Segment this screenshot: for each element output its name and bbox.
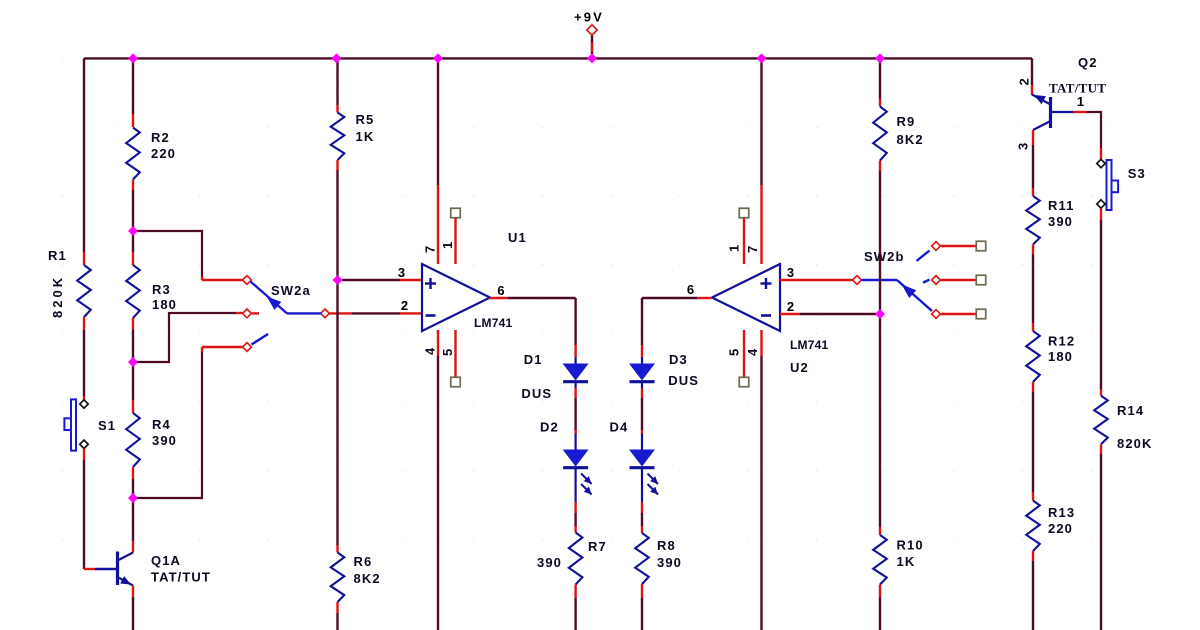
svg-text:D1: D1	[524, 352, 543, 367]
svg-text:820K: 820K	[1117, 436, 1152, 451]
svg-text:5: 5	[440, 348, 455, 356]
svg-text:U2: U2	[790, 360, 809, 375]
svg-text:R11: R11	[1048, 198, 1074, 213]
svg-text:8K2: 8K2	[354, 571, 381, 586]
svg-text:SW2a: SW2a	[271, 283, 311, 298]
svg-text:+9V: +9V	[574, 10, 604, 25]
svg-text:180: 180	[1048, 349, 1073, 364]
svg-text:R1: R1	[48, 248, 67, 263]
svg-text:390: 390	[1048, 214, 1073, 229]
svg-text:2: 2	[1017, 77, 1032, 85]
svg-text:R7: R7	[588, 539, 607, 554]
svg-text:6: 6	[687, 282, 695, 297]
svg-text:1K: 1K	[356, 129, 375, 144]
svg-text:220: 220	[151, 146, 176, 161]
svg-text:R13: R13	[1048, 505, 1075, 520]
svg-text:R8: R8	[657, 538, 676, 553]
svg-text:390: 390	[657, 555, 682, 570]
svg-text:U1: U1	[508, 230, 527, 245]
svg-text:Q2: Q2	[1078, 55, 1098, 70]
svg-text:R4: R4	[152, 417, 171, 432]
svg-text:R14: R14	[1117, 403, 1144, 418]
svg-text:TAT/TUT: TAT/TUT	[151, 570, 211, 585]
svg-text:3: 3	[398, 265, 406, 280]
svg-text:R5: R5	[356, 112, 375, 127]
svg-text:R2: R2	[151, 130, 170, 145]
svg-text:Q1A: Q1A	[151, 553, 181, 568]
svg-text:DUS: DUS	[521, 386, 552, 401]
svg-text:6: 6	[497, 283, 505, 298]
svg-text:2: 2	[787, 299, 795, 314]
svg-text:3: 3	[787, 265, 795, 280]
svg-text:S1: S1	[98, 418, 116, 433]
svg-text:R12: R12	[1048, 334, 1075, 349]
svg-text:1K: 1K	[897, 554, 916, 569]
svg-text:R3: R3	[152, 282, 171, 297]
svg-text:7: 7	[423, 245, 438, 253]
svg-text:3: 3	[1016, 142, 1031, 150]
svg-text:R10: R10	[897, 538, 924, 553]
svg-text:R9: R9	[897, 114, 916, 129]
svg-text:4: 4	[423, 347, 438, 355]
svg-text:D4: D4	[610, 420, 629, 435]
svg-text:220: 220	[1048, 521, 1073, 536]
svg-text:R6: R6	[354, 554, 373, 569]
svg-text:820K: 820K	[50, 275, 65, 318]
svg-text:5: 5	[727, 348, 742, 356]
svg-text:7: 7	[745, 245, 760, 253]
svg-text:1: 1	[1077, 94, 1085, 109]
svg-text:D3: D3	[669, 352, 688, 367]
svg-text:SW2b: SW2b	[864, 249, 905, 264]
svg-text:180: 180	[152, 297, 177, 312]
svg-text:4: 4	[745, 348, 760, 356]
svg-text:2: 2	[401, 298, 409, 313]
svg-text:8K2: 8K2	[897, 132, 924, 147]
svg-text:LM741: LM741	[474, 316, 512, 330]
svg-text:DUS: DUS	[668, 373, 699, 388]
svg-text:1: 1	[727, 244, 742, 252]
svg-text:D2: D2	[540, 420, 559, 435]
svg-text:390: 390	[152, 433, 177, 448]
svg-text:1: 1	[440, 241, 455, 249]
svg-text:LM741: LM741	[790, 338, 828, 352]
svg-text:S3: S3	[1128, 166, 1146, 181]
svg-text:390: 390	[537, 555, 562, 570]
